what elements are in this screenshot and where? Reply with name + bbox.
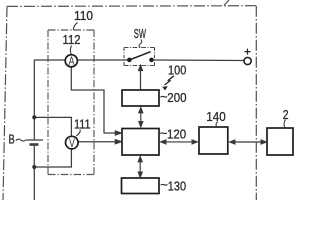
svg-text:200: 200 bbox=[167, 90, 186, 105]
svg-text:~: ~ bbox=[160, 125, 168, 140]
svg-text:110: 110 bbox=[74, 8, 93, 23]
svg-text:~: ~ bbox=[160, 177, 168, 192]
svg-text:2: 2 bbox=[283, 107, 289, 122]
svg-text:111: 111 bbox=[74, 116, 91, 131]
svg-text:100: 100 bbox=[168, 63, 186, 78]
svg-text:130: 130 bbox=[168, 178, 186, 193]
svg-text:~: ~ bbox=[160, 89, 168, 104]
svg-text:140: 140 bbox=[206, 109, 226, 124]
svg-text:120: 120 bbox=[167, 127, 186, 142]
svg-text:A: A bbox=[69, 56, 75, 68]
svg-text:V: V bbox=[69, 138, 75, 150]
svg-text:112: 112 bbox=[63, 32, 81, 47]
svg-text:B: B bbox=[9, 132, 15, 147]
svg-text:SW: SW bbox=[134, 26, 147, 41]
